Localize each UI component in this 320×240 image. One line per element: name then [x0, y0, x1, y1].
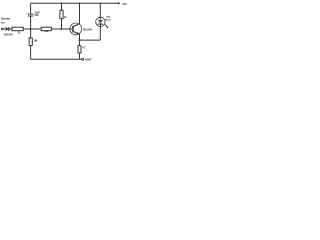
svg-text:GND: GND — [85, 57, 91, 61]
svg-text:47: 47 — [82, 47, 85, 50]
svg-text:LED: LED — [106, 17, 111, 19]
svg-text:1N4148: 1N4148 — [4, 34, 13, 37]
svg-text:1k: 1k — [64, 16, 67, 19]
svg-text:+9V: +9V — [122, 2, 127, 6]
svg-text:BC548: BC548 — [83, 28, 92, 32]
svg-text:1k: 1k — [18, 33, 21, 35]
svg-text:out: out — [1, 22, 5, 25]
svg-text:Speaker: Speaker — [1, 18, 10, 21]
svg-text:10k: 10k — [34, 40, 39, 43]
svg-text:16V: 16V — [34, 14, 39, 17]
svg-text:10k: 10k — [44, 30, 49, 33]
svg-text:(Red): (Red) — [105, 20, 111, 22]
